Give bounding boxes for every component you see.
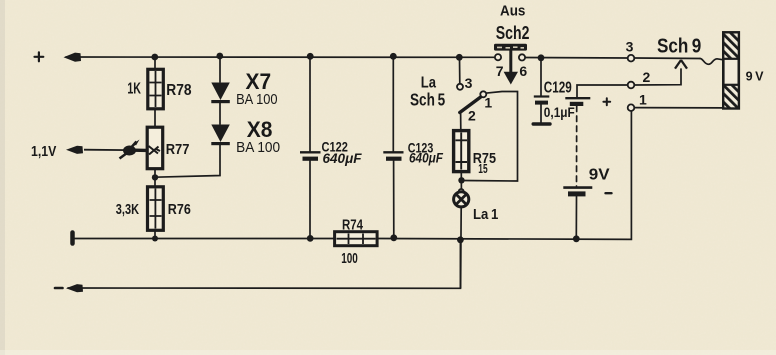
svg-text:3: 3	[465, 75, 473, 91]
svg-text:9 V: 9 V	[746, 69, 764, 84]
svg-text:BA 100: BA 100	[236, 139, 280, 156]
svg-text:R76: R76	[168, 202, 191, 218]
svg-text:3,3K: 3,3K	[116, 201, 139, 218]
svg-text:2: 2	[643, 69, 651, 85]
svg-text:2: 2	[468, 108, 476, 124]
svg-text:Sch 9: Sch 9	[657, 35, 701, 57]
svg-text:3: 3	[626, 38, 634, 54]
svg-text:BA 100: BA 100	[236, 91, 278, 108]
svg-text:0,1μF: 0,1μF	[544, 104, 575, 120]
svg-text:Sch 5: Sch 5	[410, 90, 445, 110]
svg-text:R78: R78	[166, 82, 192, 99]
svg-text:7: 7	[496, 63, 504, 79]
svg-text:640μF: 640μF	[323, 150, 362, 166]
svg-text:1,1V: 1,1V	[31, 143, 56, 160]
svg-text:1: 1	[484, 95, 492, 111]
svg-text:640μF: 640μF	[409, 149, 443, 165]
svg-text:9V: 9V	[589, 167, 610, 184]
svg-text:1: 1	[639, 92, 647, 108]
svg-text:Sch2: Sch2	[496, 22, 530, 43]
svg-text:1K: 1K	[127, 80, 141, 97]
svg-text:C129: C129	[544, 80, 572, 97]
svg-text:15: 15	[478, 162, 487, 176]
svg-text:R77: R77	[166, 142, 190, 158]
svg-text:R74: R74	[342, 217, 364, 233]
svg-text:Aus: Aus	[500, 3, 525, 20]
svg-text:100: 100	[341, 251, 358, 267]
svg-text:6: 6	[519, 63, 527, 79]
svg-text:La 1: La 1	[473, 206, 498, 223]
